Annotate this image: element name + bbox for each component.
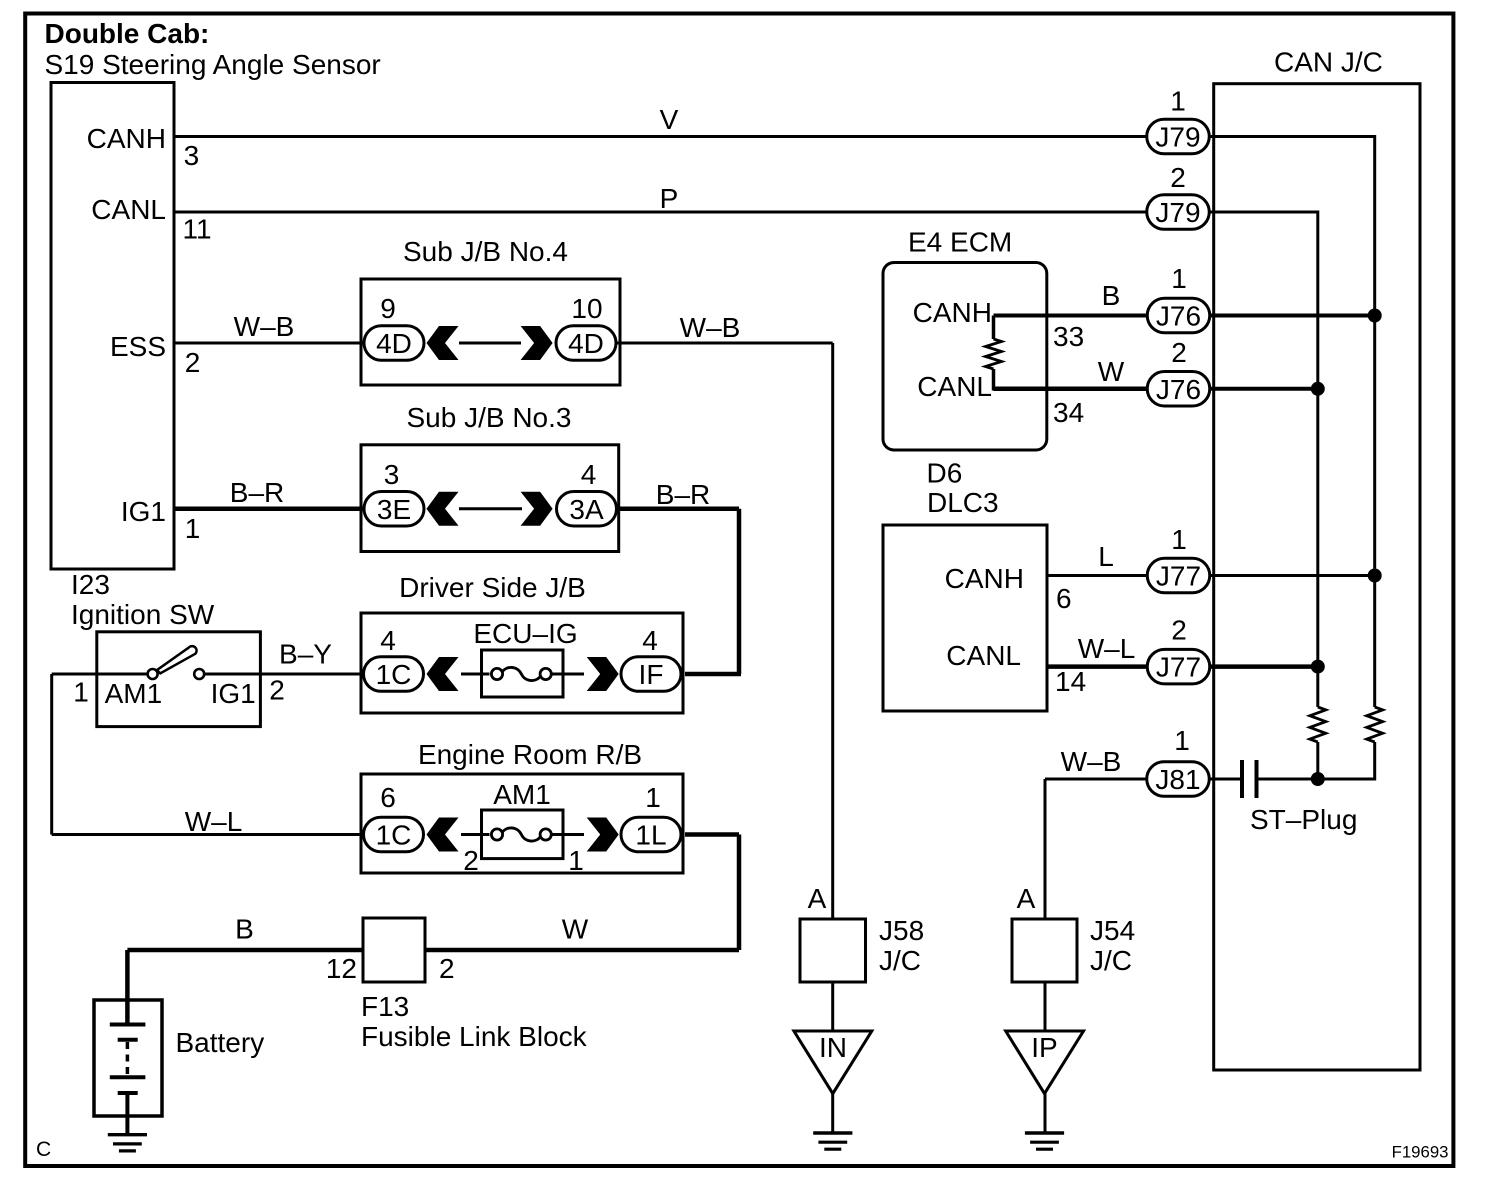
svg-text:34: 34 (1053, 397, 1084, 428)
svg-text:6: 6 (380, 782, 396, 813)
svg-text:J/C: J/C (879, 945, 921, 976)
svg-text:J/C: J/C (1090, 945, 1132, 976)
svg-text:1C: 1C (376, 820, 412, 851)
svg-text:B: B (1102, 280, 1121, 311)
svg-text:2: 2 (463, 845, 479, 876)
svg-text:IN: IN (819, 1032, 847, 1063)
svg-text:J76: J76 (1156, 301, 1201, 332)
svg-text:W–L: W–L (185, 806, 243, 837)
svg-text:W–B: W–B (680, 312, 741, 343)
svg-text:2: 2 (269, 675, 285, 706)
svg-text:CANH: CANH (913, 297, 992, 328)
svg-text:S19 Steering Angle Sensor: S19 Steering Angle Sensor (45, 49, 381, 80)
svg-text:4: 4 (642, 625, 658, 656)
svg-text:12: 12 (326, 953, 357, 984)
svg-text:J81: J81 (1155, 764, 1200, 795)
svg-text:33: 33 (1053, 321, 1084, 352)
svg-text:Engine Room R/B: Engine Room R/B (418, 739, 642, 770)
svg-text:AM1: AM1 (105, 678, 163, 709)
svg-text:Driver Side J/B: Driver Side J/B (399, 572, 586, 603)
svg-text:J79: J79 (1155, 197, 1200, 228)
svg-text:DLC3: DLC3 (927, 487, 999, 518)
svg-text:W: W (1098, 356, 1125, 387)
svg-text:A: A (808, 883, 827, 914)
svg-text:W–B: W–B (1061, 746, 1122, 777)
svg-text:IG1: IG1 (211, 678, 256, 709)
svg-text:F13: F13 (361, 991, 409, 1022)
svg-text:4: 4 (581, 459, 597, 490)
svg-text:9: 9 (380, 293, 396, 324)
svg-text:6: 6 (1056, 583, 1072, 614)
svg-text:Sub J/B No.4: Sub J/B No.4 (403, 236, 568, 267)
svg-text:2: 2 (439, 953, 455, 984)
svg-text:3: 3 (184, 140, 200, 171)
svg-text:Fusible Link Block: Fusible Link Block (361, 1021, 588, 1052)
svg-text:2: 2 (1171, 615, 1187, 646)
svg-text:J76: J76 (1156, 374, 1201, 405)
svg-text:IP: IP (1031, 1032, 1057, 1063)
svg-text:4: 4 (380, 625, 396, 656)
svg-text:W: W (562, 914, 589, 945)
svg-text:W–B: W–B (234, 311, 295, 342)
svg-text:F19693: F19693 (1392, 1143, 1449, 1162)
svg-text:Ignition SW: Ignition SW (71, 599, 215, 630)
svg-text:CANH: CANH (87, 123, 166, 154)
svg-text:CAN J/C: CAN J/C (1274, 47, 1383, 78)
svg-text:V: V (660, 104, 679, 135)
svg-text:J54: J54 (1090, 915, 1135, 946)
svg-text:ST–Plug: ST–Plug (1250, 804, 1357, 835)
svg-text:CANL: CANL (91, 194, 166, 225)
svg-text:2: 2 (185, 347, 201, 378)
svg-text:I23: I23 (71, 569, 110, 600)
svg-text:ECU–IG: ECU–IG (473, 618, 577, 649)
svg-text:B: B (235, 914, 254, 945)
svg-text:B–R: B–R (656, 479, 710, 510)
svg-text:D6: D6 (927, 458, 963, 489)
svg-text:10: 10 (571, 293, 602, 324)
svg-text:1: 1 (645, 782, 661, 813)
svg-text:W–L: W–L (1078, 633, 1136, 664)
svg-text:11: 11 (183, 214, 212, 245)
svg-text:1L: 1L (635, 820, 666, 851)
svg-text:3A: 3A (569, 494, 604, 525)
svg-text:4D: 4D (376, 328, 412, 359)
svg-text:J77: J77 (1156, 652, 1201, 683)
svg-text:Sub J/B No.3: Sub J/B No.3 (407, 402, 572, 433)
svg-text:Double Cab:: Double Cab: (45, 18, 210, 49)
svg-text:CANL: CANL (946, 640, 1021, 671)
svg-text:CANH: CANH (945, 563, 1024, 594)
svg-text:3: 3 (384, 459, 400, 490)
svg-text:J79: J79 (1155, 122, 1200, 153)
svg-text:14: 14 (1055, 666, 1086, 697)
svg-text:4D: 4D (568, 328, 604, 359)
svg-text:B–Y: B–Y (279, 639, 332, 670)
svg-text:J77: J77 (1156, 561, 1201, 592)
svg-text:Battery: Battery (176, 1027, 265, 1058)
svg-text:1C: 1C (376, 659, 412, 690)
svg-text:CANL: CANL (917, 371, 992, 402)
svg-text:1: 1 (1170, 86, 1186, 117)
svg-text:2: 2 (1170, 162, 1186, 193)
svg-text:1: 1 (185, 513, 201, 544)
svg-text:3E: 3E (377, 494, 411, 525)
svg-text:IG1: IG1 (121, 496, 166, 527)
svg-text:1: 1 (1171, 263, 1187, 294)
svg-text:2: 2 (1171, 337, 1187, 368)
svg-text:1: 1 (568, 845, 584, 876)
svg-text:A: A (1017, 883, 1036, 914)
svg-text:J58: J58 (879, 915, 924, 946)
svg-text:P: P (660, 183, 679, 214)
svg-text:C: C (36, 1138, 51, 1161)
svg-text:B–R: B–R (230, 477, 284, 508)
svg-text:1: 1 (1174, 725, 1190, 756)
svg-text:IF: IF (639, 659, 664, 690)
svg-text:1: 1 (73, 677, 89, 708)
svg-text:AM1: AM1 (493, 779, 551, 810)
svg-text:L: L (1098, 541, 1114, 572)
svg-text:E4 ECM: E4 ECM (908, 227, 1012, 258)
svg-text:1: 1 (1171, 524, 1187, 555)
svg-text:ESS: ESS (110, 331, 166, 362)
